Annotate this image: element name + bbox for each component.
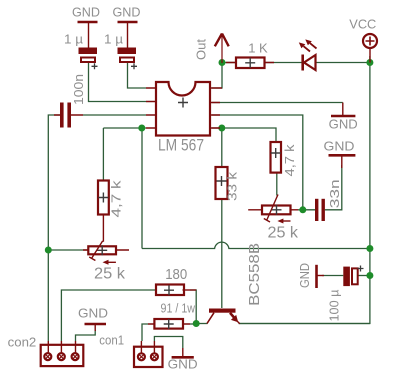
- wire net C2 bottom to IC pin L1: [128, 63, 147, 88]
- capacitor C3 100n plates: [60, 103, 64, 128]
- svg-text:LM 567: LM 567: [158, 136, 204, 155]
- node pot2/33n junction: [299, 206, 306, 213]
- wire VCC branch down from pin L4 junction: [141, 128, 143, 249]
- capacitor C5 plus: [358, 266, 364, 272]
- wire 33k top drop: [221, 128, 223, 167]
- svg-text:VCC: VCC: [349, 17, 376, 32]
- svg-text:GND: GND: [113, 5, 141, 20]
- potentiometer P1 adjust arrow: [105, 261, 116, 263]
- ground GND-B pin: [127, 22, 129, 48]
- wire GND-sym to con2 pin3: [76, 330, 96, 341]
- svg-text:BC558B: BC558B: [246, 243, 263, 306]
- ground GND-A bar: [78, 21, 98, 24]
- svg-text:25 k: 25 k: [268, 225, 300, 242]
- wire 100u right lead: [358, 275, 370, 277]
- potentiometer P2 wiper: [264, 195, 278, 223]
- resistor R2 4.7k box: [98, 181, 109, 215]
- wire 180 right down to collector node: [190, 290, 196, 324]
- svg-text:33n: 33n: [327, 179, 342, 208]
- resistor R5 180 box: [156, 285, 184, 296]
- ground GND2 pin: [341, 155, 343, 168]
- ground GND-B bar: [118, 21, 138, 24]
- capacitor C4 33n plates: [315, 199, 318, 221]
- svg-text:con1: con1: [99, 333, 124, 348]
- ground GND-C bar (above con1): [85, 323, 107, 326]
- wire pot2 right to 33n: [298, 209, 315, 211]
- wire net 100n right to IC pin L3: [83, 114, 146, 116]
- svg-text:100n: 100n: [71, 74, 86, 105]
- ground GND-A pin: [88, 22, 90, 48]
- wire 33k bottom to transistor base: [221, 199, 223, 308]
- wire VCC column: [239, 56, 370, 324]
- connector con1 box: [134, 347, 163, 367]
- ground GND2 bar: [329, 154, 356, 157]
- potentiometer P2 25k box: [262, 206, 291, 215]
- wire 4.7k R2 top drop: [102, 128, 104, 181]
- potentiometer P1 right pin stub: [83, 249, 129, 251]
- wire con1 pin2 to GND3: [154, 337, 182, 349]
- svg-text:100 µ: 100 µ: [327, 289, 342, 321]
- op-amp U1 origin cross: [178, 98, 188, 108]
- wire net C1 bottom to IC pin L2: [89, 63, 147, 102]
- node 100u junction: [366, 272, 373, 279]
- ground GND1 pin: [342, 103, 344, 117]
- LED D1 triangle: [304, 55, 316, 70]
- transistor Q1 base bar: [209, 309, 236, 313]
- wire 4.7k R4 bottom to pot2 wiper: [276, 173, 278, 196]
- transistor Q1 collector slant: [207, 313, 214, 324]
- resistor R4 4.7k box: [271, 142, 282, 173]
- capacitor C2 1u plates: [118, 48, 137, 55]
- wire con2 pin2 up to 180: [61, 290, 155, 341]
- supply VCC circle: [363, 34, 377, 48]
- node VCC top junction: [366, 59, 373, 66]
- wire 91/1w right to collector node: [190, 323, 196, 325]
- wire 91/1w left to con1 pin1: [142, 324, 148, 341]
- op-amp U1 pins right: [210, 88, 222, 128]
- resistor R6 origin cross: [164, 319, 174, 329]
- connector con2 box: [41, 345, 84, 366]
- connector con1 pin1 pad: [138, 353, 145, 360]
- wire 1K to LED: [265, 62, 302, 64]
- wire 1K left lead: [222, 62, 236, 64]
- wire node A to pot1: [48, 249, 88, 251]
- connector con2 pin3 pad: [72, 353, 79, 360]
- ground GND3 pin: [182, 348, 184, 357]
- svg-text:91 / 1w: 91 / 1w: [161, 301, 196, 316]
- svg-text:1 K: 1 K: [248, 41, 268, 56]
- wire 100u left lead: [322, 275, 343, 277]
- svg-text:1 µ: 1 µ: [64, 32, 84, 47]
- op-amp U1 LM567 box with notch: [156, 82, 210, 136]
- capacitor C3 pin stubs: [54, 114, 83, 116]
- svg-text:25 k: 25 k: [94, 266, 126, 283]
- svg-text:GND: GND: [329, 116, 358, 131]
- transistor Q1 emitter slant with arrow: [230, 313, 235, 318]
- node collector junction: [193, 320, 200, 327]
- ground GND3 bar: [172, 356, 194, 359]
- node out junction: [219, 59, 226, 66]
- svg-text:1 µ: 1 µ: [104, 32, 124, 47]
- svg-text:con2: con2: [8, 335, 37, 350]
- svg-text:180: 180: [165, 266, 187, 283]
- potentiometer P1 wiper: [89, 241, 102, 261]
- capacitor C1 1u plates: [79, 48, 98, 55]
- connector con2 pin1 pad: [44, 353, 51, 360]
- wire LED to VCC node: [316, 62, 370, 64]
- resistor R1 pin stubs: [226, 62, 274, 64]
- node A junction: [45, 247, 52, 254]
- svg-text:GND: GND: [168, 357, 198, 372]
- potentiometer P2 adjust arrow: [280, 220, 291, 222]
- node IC pin L4 junction: [138, 125, 145, 132]
- supply VCC pin: [369, 48, 371, 63]
- wire 33n right to GND2: [325, 165, 342, 210]
- connector con2 pin2 pad: [58, 353, 65, 360]
- resistor R1 1K box: [236, 58, 265, 69]
- LED D1 cathode bar: [301, 55, 304, 71]
- potentiometer P1 wiper stem: [102, 215, 105, 242]
- wire IC pin R2 to GND1: [212, 102, 343, 104]
- ground GND4 bar: [315, 265, 318, 288]
- resistor R6 pin stubs: [148, 323, 190, 325]
- resistor R5 origin cross: [164, 285, 174, 295]
- svg-text:GND: GND: [324, 138, 355, 153]
- resistor R2 origin cross: [98, 193, 108, 203]
- resistor R6 91/1w box: [154, 319, 183, 329]
- wire collector node to transistor: [196, 323, 207, 325]
- resistor R5 pin stub: [183, 289, 197, 291]
- potentiometer P2 origin cross: [272, 205, 282, 215]
- ground GND-C pin: [94, 324, 96, 331]
- capacitor C1 plus: [92, 63, 98, 69]
- svg-text:33 k: 33 k: [225, 171, 240, 201]
- wire net IC pin L4 row: [103, 127, 146, 129]
- ground GND4 pin: [317, 275, 325, 277]
- resistor R3 origin cross: [217, 176, 227, 186]
- supply VCC plus: [366, 37, 375, 46]
- svg-text:GND: GND: [72, 5, 100, 20]
- potentiometer P2 pin stubs: [248, 209, 298, 211]
- wire IC pin R3 down to pot2 node: [212, 115, 303, 210]
- wires will be inserted here: [48, 56, 370, 348]
- LED D1 arrows: [304, 43, 317, 51]
- potentiometer P1 origin cross: [97, 245, 107, 255]
- resistor R1 origin cross: [245, 58, 255, 68]
- svg-text:GND: GND: [78, 306, 108, 321]
- svg-text:4,7 k: 4,7 k: [109, 180, 124, 218]
- connector con1 pin2 pad: [151, 353, 158, 360]
- node VCC row junction: [366, 245, 373, 252]
- wire long VCC row with hop: [142, 242, 370, 248]
- node IC pin R4 junction: [218, 125, 225, 132]
- resistor R4 origin cross: [271, 148, 281, 158]
- capacitor C5 100u plates: [343, 267, 350, 287]
- wire emitter lead: [239, 323, 370, 325]
- wire IC pin R4 row to 4.7k R4 top: [212, 128, 276, 142]
- ground GND1 bar: [331, 115, 355, 118]
- wire node A down to con2 pin1: [47, 250, 49, 341]
- svg-text:Out: Out: [194, 39, 209, 60]
- svg-text:GND: GND: [297, 263, 312, 288]
- wire net 100n left to node A column: [48, 115, 60, 250]
- resistor R3 33k box: [216, 167, 228, 199]
- out arrow: [221, 34, 223, 64]
- wire out node up: [212, 63, 222, 89]
- potentiometer P1 25k box: [88, 246, 116, 254]
- svg-text:4,7 k: 4,7 k: [282, 144, 297, 177]
- op-amp U1 pins left: [146, 88, 156, 128]
- capacitor C2 plus: [131, 63, 137, 69]
